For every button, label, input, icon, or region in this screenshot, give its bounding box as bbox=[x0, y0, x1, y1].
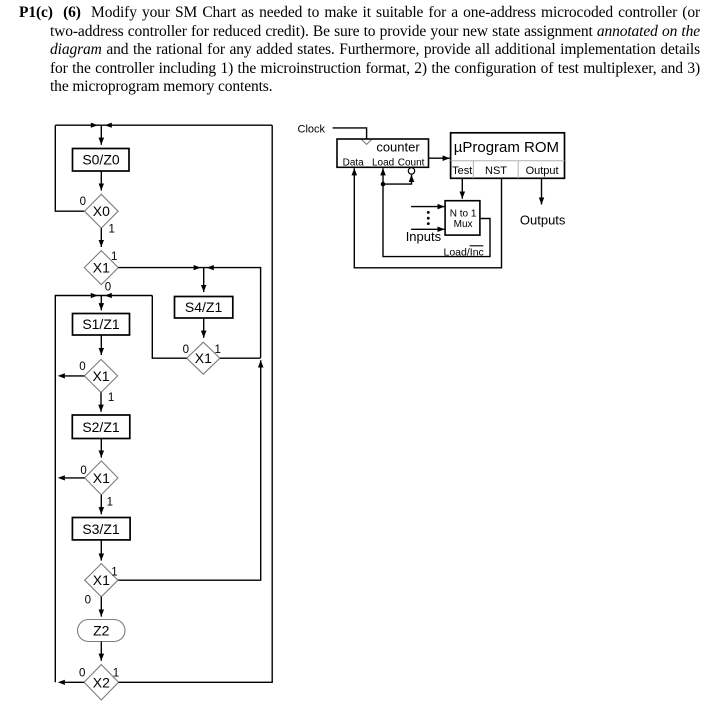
svg-text:Count: Count bbox=[398, 158, 425, 169]
node: arrowhead into left bus at S2 level bbox=[58, 475, 65, 480]
wire: X0 false branch up the left side to top line bbox=[55, 125, 84, 211]
svg-text:0: 0 bbox=[80, 196, 86, 208]
component: N to 1 Mux box bbox=[445, 201, 480, 235]
wire: X1(S1) false branch to left bus bbox=[65, 375, 84, 377]
conditional output oval Z2 bbox=[78, 620, 126, 642]
wire: input N into mux bbox=[411, 228, 445, 230]
wire: S1 to X1 bbox=[100, 335, 102, 355]
wire: X2 false branch to left bus bbox=[65, 681, 84, 683]
svg-text:Output: Output bbox=[526, 165, 559, 177]
wire: mux output feedback to Load and Count bbox=[383, 168, 490, 256]
wire: top entry line into S0 bbox=[55, 124, 272, 126]
wire: NST feedback to Data bbox=[354, 168, 501, 268]
wire: Test field to mux select bbox=[461, 178, 463, 198]
svg-text:S4/Z1: S4/Z1 bbox=[185, 299, 223, 315]
svg-text:Load: Load bbox=[372, 158, 394, 169]
node: arrowhead into left bus at X2 level bbox=[58, 680, 65, 685]
node: arrowhead into left bus at S1 level bbox=[58, 373, 65, 378]
junction on load line bbox=[381, 182, 386, 187]
wire: X1(S4) false branch back to S1 entry bbox=[152, 296, 186, 359]
component: counter box bbox=[337, 139, 429, 167]
svg-text:1: 1 bbox=[111, 251, 117, 263]
wire: left bus collecting 0-branches up to S1 entry bbox=[55, 296, 152, 683]
decision diamond X1 (under S3) bbox=[85, 564, 118, 597]
decision diamond X1 (under S2) bbox=[85, 461, 118, 495]
component: uProgram ROM box bbox=[451, 133, 565, 179]
state box S0/Z0 bbox=[73, 149, 130, 172]
wire: X1 true branch across and down (S4 loop right side) bbox=[118, 268, 260, 358]
svg-text:1: 1 bbox=[215, 344, 221, 356]
wire: branch to Count bubble bbox=[383, 175, 412, 184]
wire: S0 to X0 bbox=[100, 171, 102, 191]
svg-text:1: 1 bbox=[109, 224, 115, 236]
wire: S3 X1 true branch up to S4 entry, arrow up bbox=[117, 360, 260, 580]
wire: Output field to outputs bbox=[541, 178, 543, 204]
wire: drop into S1 bbox=[100, 296, 102, 311]
wire: X1(S1) to S2 bbox=[100, 392, 102, 411]
svg-text:Test: Test bbox=[452, 165, 472, 177]
svg-text:0: 0 bbox=[80, 465, 86, 477]
wire: X2 true branch around right side to top bbox=[119, 125, 273, 682]
svg-text:µProgram ROM: µProgram ROM bbox=[454, 139, 559, 156]
svg-text:X2: X2 bbox=[93, 674, 110, 690]
svg-text:Load/Inc: Load/Inc bbox=[444, 246, 484, 258]
svg-text:X0: X0 bbox=[93, 203, 110, 219]
svg-text:0: 0 bbox=[105, 282, 111, 294]
wire: X0 to X1 bbox=[100, 228, 102, 247]
svg-text:S2/Z1: S2/Z1 bbox=[82, 419, 120, 435]
wire: clock to counter bbox=[333, 128, 367, 139]
svg-text:Mux: Mux bbox=[454, 219, 473, 230]
svg-text:Clock: Clock bbox=[298, 123, 326, 135]
label: Load/Inc with overbar on Inc bbox=[444, 246, 484, 258]
svg-text:0: 0 bbox=[85, 594, 91, 606]
wire: X1(S3) to Z2 oval bbox=[100, 597, 102, 617]
node: S0 entry merge arrowheads bbox=[91, 123, 112, 128]
svg-text:0: 0 bbox=[183, 344, 189, 356]
svg-text:0: 0 bbox=[79, 668, 85, 680]
svg-text:S1/Z1: S1/Z1 bbox=[82, 316, 120, 332]
wire: X1(S4) true branch to S4 loop bbox=[220, 357, 261, 359]
wire: S2 to X1 bbox=[100, 439, 102, 458]
node: Count inverting bubble bbox=[408, 168, 414, 174]
clock input wedge on counter bbox=[361, 139, 371, 144]
svg-text:1: 1 bbox=[108, 392, 114, 404]
svg-text:1: 1 bbox=[111, 567, 117, 579]
wire: S3 to X1 bbox=[100, 540, 102, 561]
wire: drop from top line into S0 bbox=[100, 125, 102, 145]
wire: X1(S2) false branch to left bus bbox=[65, 477, 85, 479]
wire: input 1 into mux bbox=[411, 206, 445, 208]
decision diamond X0 bbox=[85, 194, 119, 228]
state box S3/Z1 bbox=[72, 518, 130, 540]
decision diamond X1 (under S1) bbox=[84, 359, 117, 392]
svg-text:1: 1 bbox=[107, 497, 113, 509]
wire: counter to uProgram ROM bbox=[429, 157, 450, 159]
svg-text:X1: X1 bbox=[93, 572, 110, 588]
svg-text:NST: NST bbox=[485, 165, 507, 177]
svg-text:counter: counter bbox=[376, 139, 420, 154]
node: ellipsis dots between inputs bbox=[427, 211, 430, 225]
svg-text:1: 1 bbox=[113, 668, 119, 680]
node: S4 entry merge arrowheads bbox=[194, 265, 214, 270]
svg-text:S3/Z1: S3/Z1 bbox=[82, 521, 120, 537]
wire: X1(S2) to S3 bbox=[100, 495, 102, 514]
state box S4/Z1 bbox=[175, 297, 233, 319]
decision diamond X2 bbox=[84, 665, 118, 700]
state box S1/Z1 bbox=[73, 314, 130, 336]
state box S2/Z1 bbox=[72, 415, 130, 439]
svg-text:Inputs: Inputs bbox=[406, 229, 442, 244]
node: S1 entry merge arrowheads bbox=[91, 293, 112, 298]
svg-text:X1: X1 bbox=[93, 470, 110, 486]
wire: S4 to X1 bbox=[203, 318, 205, 338]
svg-text:0: 0 bbox=[79, 361, 85, 373]
wire: Z2 to X2 bbox=[100, 642, 102, 661]
svg-text:S0/Z0: S0/Z0 bbox=[82, 152, 120, 168]
svg-text:Data: Data bbox=[343, 158, 365, 169]
wire: drop into S4 bbox=[203, 268, 205, 292]
svg-text:X1: X1 bbox=[93, 260, 110, 276]
decision diamond X1 (top) bbox=[84, 251, 118, 285]
svg-text:X1: X1 bbox=[92, 368, 109, 384]
decision diamond X1 (under S4) bbox=[187, 342, 220, 374]
svg-text:Z2: Z2 bbox=[93, 623, 110, 639]
svg-text:Outputs: Outputs bbox=[520, 213, 566, 228]
svg-text:X1: X1 bbox=[195, 350, 212, 366]
